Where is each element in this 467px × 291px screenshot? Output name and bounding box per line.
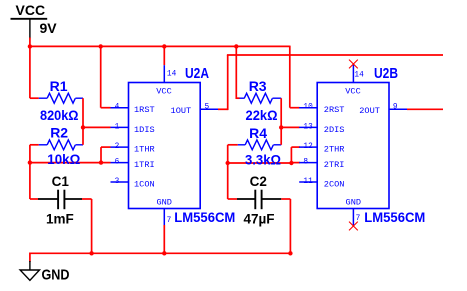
node rail to R3 (234, 44, 238, 48)
svg-text:14: 14 (354, 71, 364, 79)
svg-text:R2: R2 (50, 125, 68, 141)
pin 10 2RST (299, 107, 317, 109)
wire C2 right down to GND rail (289, 199, 291, 253)
node THR/TRI elbow (99, 160, 103, 164)
svg-text:2: 2 (115, 143, 120, 151)
svg-text:4: 4 (115, 104, 120, 112)
svg-text:3.3kΩ: 3.3kΩ (245, 151, 281, 167)
svg-text:1CON: 1CON (134, 179, 155, 189)
node THR/TRI left (28, 160, 32, 164)
svg-text:U2B: U2B (374, 65, 398, 82)
wire THR/TRI node vertical left (29, 145, 31, 199)
wire rail down to pin 14 (163, 46, 165, 66)
pin 6 1TRI (111, 162, 129, 164)
svg-text:C1: C1 (52, 174, 70, 189)
svg-text:1THR: 1THR (134, 145, 155, 155)
svg-text:6: 6 (115, 159, 120, 167)
svg-text:9: 9 (393, 104, 398, 112)
svg-text:10kΩ: 10kΩ (47, 151, 80, 167)
wire U2A pin 7 to GND rail (163, 225, 165, 253)
node U2A GND junction (162, 251, 166, 255)
wire elbow up to pin 12 2THR (290, 147, 292, 163)
svg-text:2CON: 2CON (324, 179, 345, 189)
pin 13 2DIS (299, 126, 317, 128)
wire VCC rail (30, 45, 290, 47)
node DIS junction left (81, 125, 85, 129)
wire R4 right up to DIS node (280, 127, 282, 144)
resistor R2 (30, 144, 39, 146)
capacitor C1 (30, 198, 38, 200)
resistor R1 (30, 97, 39, 99)
svg-text:3: 3 (115, 178, 120, 186)
wire GND rail (30, 252, 291, 254)
svg-text:GND: GND (42, 267, 70, 284)
wire THR/TRI to U2B pins (228, 162, 292, 164)
wire R3 right down to DIS node (280, 98, 282, 127)
node rail to 1RST (99, 44, 103, 48)
wire VCC to rail (29, 38, 31, 47)
svg-text:C2: C2 (250, 174, 267, 189)
svg-text:VCC: VCC (156, 87, 171, 97)
svg-text:7: 7 (356, 215, 361, 223)
pin 12 2THR (299, 146, 317, 148)
pin 5 1OUT (200, 108, 218, 110)
node DIS junction right (279, 125, 283, 129)
node VCC rail junction (28, 44, 32, 48)
svg-text:5: 5 (205, 104, 210, 112)
wire THR/TRI node vertical right (227, 145, 229, 199)
resistor R4 (228, 144, 238, 146)
pin 3 1CON (111, 181, 129, 183)
svg-text:11: 11 (303, 178, 313, 186)
wire GND stub (29, 253, 31, 263)
wire rail to pin 4 1RST (100, 46, 102, 108)
pin 7 stub U2A (163, 209, 165, 226)
svg-text:1OUT: 1OUT (171, 106, 192, 116)
pin 2 1THR (111, 146, 129, 148)
wire 1OUT to right (218, 108, 228, 110)
node THR/TRI right (226, 161, 230, 165)
svg-text:22kΩ: 22kΩ (246, 107, 278, 123)
pin 11 2CON (299, 181, 317, 183)
capacitor C2 (228, 198, 237, 200)
wire R1 right down to DIS node (82, 98, 84, 127)
svg-text:1TRI: 1TRI (134, 160, 155, 170)
no-connect X pin 14 (349, 60, 358, 69)
ground symbol (20, 270, 39, 280)
node C1 GND junction (89, 251, 93, 255)
wire DIS node to pin 13 (281, 126, 299, 128)
svg-text:14: 14 (167, 70, 177, 78)
svg-text:2TRI: 2TRI (324, 160, 345, 170)
pin 9 2OUT (389, 108, 407, 110)
svg-text:GND: GND (346, 197, 361, 207)
svg-text:2OUT: 2OUT (359, 106, 380, 116)
svg-text:LM556CM: LM556CM (174, 210, 235, 225)
svg-text:13: 13 (303, 123, 313, 131)
pin 14 stub U2B (352, 64, 354, 83)
pin 8 2TRI (299, 162, 317, 164)
pin 1 1DIS (111, 126, 129, 128)
svg-text:7: 7 (167, 217, 172, 225)
wire 2OUT to right (407, 108, 443, 110)
svg-text:10: 10 (303, 104, 313, 112)
node rail to U2A VCC pin 14 (162, 44, 166, 48)
svg-text:8: 8 (303, 159, 308, 167)
svg-text:2RST: 2RST (324, 105, 345, 115)
wire DIS node to pin 1 (83, 126, 111, 128)
wire elbow to pin 8 2TRI (291, 162, 300, 164)
svg-text:1: 1 (115, 123, 120, 131)
wire elbow up to pin 2 1THR (100, 147, 102, 163)
svg-text:R3: R3 (249, 78, 267, 94)
svg-text:9V: 9V (40, 20, 58, 36)
pin 4 1RST (111, 107, 129, 109)
svg-text:1mF: 1mF (46, 211, 74, 226)
timer IC U2B body (317, 83, 389, 209)
wire R1 left from VCC rail (29, 47, 31, 98)
wire rail corner down to 2RST pin 10 (289, 46, 291, 108)
resistor R3 (240, 97, 245, 99)
node THR/TRI elbow right (289, 161, 293, 165)
svg-text:LM556CM: LM556CM (364, 210, 425, 225)
svg-text:820kΩ: 820kΩ (40, 107, 79, 123)
wire elbow to pin 6 1TRI (101, 162, 111, 164)
node C2 GND junction (288, 251, 292, 255)
svg-text:VCC: VCC (345, 87, 360, 97)
wire R2 right up to DIS node (82, 127, 84, 144)
timer IC U2A body (129, 83, 201, 209)
svg-text:1DIS: 1DIS (134, 125, 155, 135)
svg-text:47µF: 47µF (244, 211, 275, 226)
svg-text:R4: R4 (249, 125, 267, 141)
svg-text:2THR: 2THR (324, 145, 345, 155)
svg-text:R1: R1 (50, 78, 68, 94)
wire rail down to R3 (235, 46, 237, 99)
wire THR/TRI to pins (30, 162, 101, 164)
wire C1 right down to GND rail (91, 199, 93, 253)
no-connect X pin 7 (349, 222, 358, 231)
pin 14 stub U2A (163, 65, 165, 82)
svg-text:2DIS: 2DIS (324, 125, 345, 135)
svg-text:12: 12 (303, 143, 313, 151)
svg-text:1RST: 1RST (134, 105, 155, 115)
svg-text:GND: GND (156, 197, 171, 207)
pin 7 stub U2B (352, 209, 354, 227)
svg-text:U2A: U2A (185, 65, 209, 82)
svg-text:VCC: VCC (16, 2, 46, 18)
